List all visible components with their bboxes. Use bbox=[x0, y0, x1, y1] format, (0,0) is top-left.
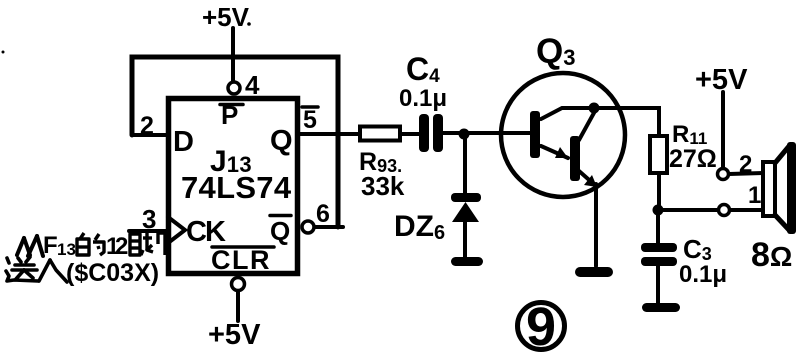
svg-text:($C03X): ($C03X) bbox=[66, 259, 159, 287]
svg-text:2: 2 bbox=[140, 112, 154, 140]
svg-text:8Ω: 8Ω bbox=[751, 236, 792, 274]
svg-text:74LS74: 74LS74 bbox=[181, 170, 292, 205]
svg-text:+5V: +5V bbox=[208, 319, 261, 351]
svg-text:33k: 33k bbox=[361, 171, 405, 201]
svg-text:6: 6 bbox=[316, 200, 330, 228]
svg-text:+5V: +5V bbox=[202, 2, 250, 32]
svg-text:13: 13 bbox=[57, 240, 76, 259]
svg-text:P: P bbox=[221, 100, 238, 130]
svg-text:D: D bbox=[173, 126, 194, 158]
svg-text:F: F bbox=[43, 232, 58, 259]
svg-text:9: 9 bbox=[526, 297, 556, 357]
svg-text:1: 1 bbox=[748, 182, 761, 209]
svg-text:4: 4 bbox=[245, 70, 260, 100]
svg-text:CK: CK bbox=[186, 216, 226, 248]
svg-text:3: 3 bbox=[142, 204, 156, 234]
svg-text:0.1μ: 0.1μ bbox=[399, 85, 447, 112]
svg-text:+5V: +5V bbox=[695, 64, 748, 96]
svg-text:5: 5 bbox=[303, 106, 317, 134]
svg-text:CLR: CLR bbox=[211, 245, 271, 275]
svg-text:2: 2 bbox=[739, 151, 752, 178]
svg-text:2: 2 bbox=[115, 233, 128, 260]
svg-text:Q: Q bbox=[270, 216, 290, 246]
svg-text:0.1μ: 0.1μ bbox=[679, 261, 727, 288]
svg-text:Q: Q bbox=[270, 125, 293, 157]
svg-text:27Ω: 27Ω bbox=[669, 145, 717, 173]
